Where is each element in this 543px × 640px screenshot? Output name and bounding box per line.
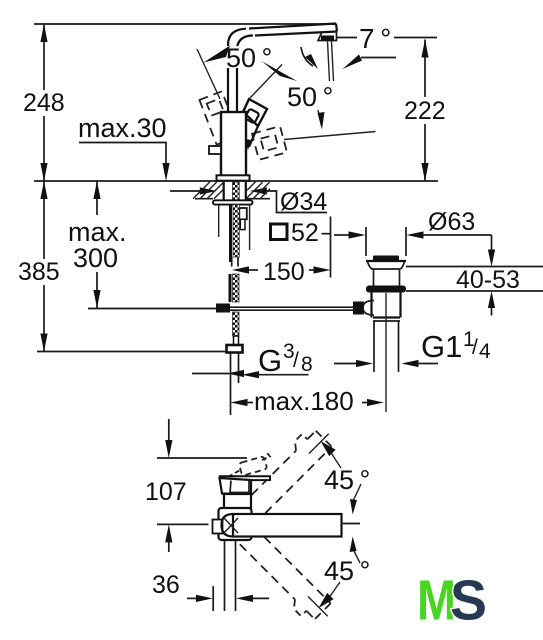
dimension 107 [145,419,247,552]
spout bar side view [222,514,342,537]
svg-text:248: 248 [23,89,65,117]
dimension 36 [152,571,269,611]
dimension 40-53 [406,235,543,316]
svg-text:50 °: 50 ° [287,82,333,112]
body side view [224,494,251,514]
pull rod tee [216,304,230,313]
drain o-ring seal [366,286,406,293]
svg-text:52: 52 [291,219,319,247]
escutcheon frame [219,508,252,540]
lever blade side [220,476,270,480]
svg-text:150: 150 [263,258,305,286]
svg-text:300: 300 [73,243,118,273]
spout arm [249,24,337,36]
label 50 degrees spout swivel [284,82,376,140]
svg-text:385: 385 [18,258,60,286]
dimension Ø63 [334,208,492,256]
svg-text:Ø63: Ø63 [428,208,475,236]
aerator at spout tip [318,32,337,41]
drain tailpipe [374,321,399,372]
svg-text:40-53: 40-53 [456,266,520,294]
45 deg upper label [324,465,370,515]
side view: spout swung up 45 dashed [233,421,336,524]
svg-text:36: 36 [152,571,180,599]
supply pipe below [231,353,239,416]
45 deg lower label [324,537,370,587]
dimension 7 degrees [301,23,437,69]
drain body [372,292,401,321]
svg-text:G1: G1 [421,329,462,364]
drain flange cap [366,256,406,287]
svg-text:max.180: max.180 [254,386,354,416]
lever tilted solid [243,99,267,150]
axis stub at 45 down [308,596,328,616]
dimension Ø34 leader [170,187,327,216]
dimension max.180 [231,386,385,416]
svg-text:4: 4 [479,340,491,363]
MS logo [417,569,487,633]
dimension 222 [404,40,446,182]
spout riser pipe [228,29,253,112]
axis stub at 45 up [309,434,329,454]
drain center rod [385,293,387,412]
pull rod joint on drain [353,301,374,316]
shank pipe below body [225,540,236,611]
lever position left dashed [199,91,239,144]
svg-text:45 °: 45 ° [324,465,370,495]
svg-text:G: G [258,343,282,378]
mounting nut [239,208,247,219]
svg-text:S: S [450,569,487,633]
flexible supply hose upper [229,205,239,267]
dimension 248 [23,24,65,181]
dimension max.300 [68,181,127,308]
svg-text:107: 107 [145,478,187,506]
svg-text:/: / [293,349,299,372]
label G 3/8 [192,340,313,378]
reference line mounting surface [34,180,438,182]
horseshoe washer [213,200,253,204]
base plate [217,175,250,180]
svg-text:/: / [472,336,478,359]
svg-text:max.30: max.30 [78,113,167,143]
svg-text:222: 222 [404,97,446,125]
label 50 degrees lever [224,46,270,68]
temperature limiter tab [209,146,221,154]
spout axis stub line [341,523,361,525]
rotation arrow up [321,441,342,468]
countertop hatching [193,182,270,199]
svg-text:8: 8 [301,353,313,376]
label square 52 [271,219,332,247]
svg-text:7 °: 7 ° [359,23,391,54]
svg-text:45 °: 45 ° [324,556,370,586]
side view: spout swung down 45 dashed [232,526,335,629]
svg-text:50 °: 50 ° [226,43,272,73]
faucet body [221,112,246,176]
reference line bottom (hose end) [37,351,227,353]
label G 1 1/4 [334,328,491,367]
dimension 150 [232,217,331,287]
dimension 385 [18,181,60,352]
reference line top (max height) [34,23,336,25]
lever raised dashed [228,452,270,478]
side tab [213,520,223,534]
dimension max.30 leader [78,113,170,181]
lever head block [220,478,252,494]
svg-text:Ø34: Ø34 [280,188,327,216]
water stream lines [328,42,334,82]
rotation arrow down [319,582,341,608]
mounting shank below counter [213,182,253,250]
flexible supply hose lower [229,274,240,345]
lever position right dashed [252,126,287,160]
G3/8 hex nut [227,345,243,353]
pull rod horizontal [88,307,353,310]
